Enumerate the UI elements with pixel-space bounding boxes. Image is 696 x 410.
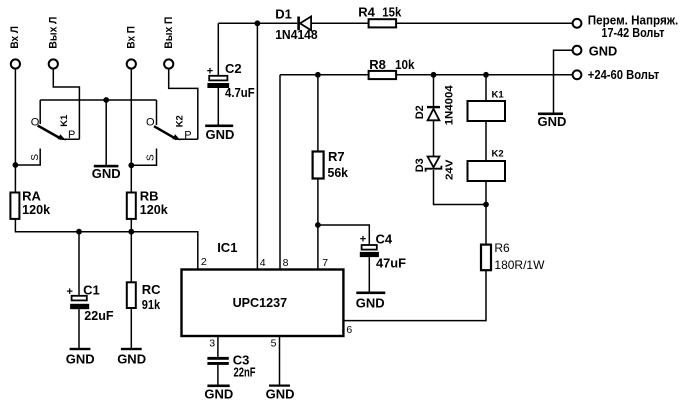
svg-text:K2: K2 [175,115,186,127]
wire O1 lead [39,100,41,124]
svg-text:C1: C1 [83,282,100,297]
svg-text:6: 6 [346,324,352,336]
svg-text:Вых Л: Вых Л [48,17,60,49]
GND symbols: bar + label [66,113,567,402]
arrowhead arm K2 [172,134,180,140]
wire R4 to connector [396,22,572,24]
svg-text:GND: GND [66,351,95,366]
node bus C1 [76,229,82,235]
wire GND connector drop [554,50,573,112]
resistor RB [127,193,136,219]
resistor R8 [369,71,397,79]
ground under pin5 [269,385,290,387]
svg-text:+24-60 Вольт: +24-60 Вольт [588,67,660,82]
svg-text:22uF: 22uF [84,308,113,323]
ground center contacts [94,165,119,168]
resistor RC [127,282,136,308]
wire RB to bus [130,219,132,232]
arrowhead arm K1 [58,134,67,140]
svg-text:S: S [146,154,157,161]
svg-text:1N4148: 1N4148 [275,27,318,42]
zener D3 24V [428,157,440,168]
node contact bus GND [103,97,109,103]
wire O2 lead [156,100,158,125]
relay contact labels [30,114,191,161]
connector P2 GND circle [573,46,582,55]
terminal T4 Вых П [164,59,173,68]
terminal T3 Вх П [127,59,136,68]
svg-text:15k: 15k [382,4,402,19]
svg-text:4: 4 [260,257,266,269]
ground under C3 [207,385,229,388]
node rail K1 [483,72,489,78]
svg-text:1N4004: 1N4004 [443,84,455,125]
wire D2 branch top [433,75,435,107]
capacitor C4 plates [362,245,377,250]
wire R6 to pin 6 [343,270,486,320]
wire T1 vertical [14,69,16,193]
wire T2 step to relay pole P (K1) [53,69,79,140]
svg-text:GND: GND [589,43,618,58]
resistor R7 [313,152,324,179]
svg-text:120k: 120k [140,202,169,217]
svg-text:GND: GND [204,387,233,402]
resistor R4 [369,19,397,27]
svg-text:2: 2 [201,256,207,268]
node S1 [13,162,19,168]
svg-text:K1: K1 [492,89,505,100]
diode D2 1N4004 [427,106,440,108]
svg-text:D2: D2 [414,105,426,119]
svg-text:C2: C2 [225,61,242,76]
wire D1-R4 [311,22,369,24]
wire contact bus O1-GND-O2 [40,99,156,101]
svg-text:Вх Л: Вх Л [9,26,21,49]
node D1 pin4 [255,20,261,26]
terminal T2 Вых Л [49,59,58,68]
node S2 [128,162,134,168]
wire +V rail pin8-R8 [280,74,369,76]
wire C2 to GND [217,88,219,125]
svg-text:O: O [31,116,40,128]
capacitor C2 plates [209,76,227,81]
wire C4 branch [318,225,369,245]
wire RA to bus [15,219,197,270]
svg-text:7: 7 [322,257,328,269]
wire center GND drop [105,100,107,165]
svg-text:24V: 24V [443,160,455,181]
wire coil branch top [485,75,487,101]
wire C1 to GND [78,309,80,348]
svg-text:P: P [184,129,191,141]
resistor R6 [481,245,491,271]
node rail D2 [431,72,437,78]
pin number labels [201,256,353,350]
svg-text:3: 3 [209,337,215,349]
svg-text:D1: D1 [275,7,292,22]
relay arm K2 [154,126,177,139]
wire pin 8 vertical [279,75,281,270]
ground under C1 [70,348,91,350]
ground right connector [538,113,563,116]
svg-text:Вых П: Вых П [163,17,175,49]
wire D3 bottom to node [434,170,487,205]
svg-text:GND: GND [117,351,146,366]
ground under C4 [356,292,385,295]
wire RC to GND [130,308,132,348]
svg-text:S: S [30,154,41,161]
svg-text:K1: K1 [59,114,70,127]
svg-text:R8: R8 [369,57,386,72]
wire K1-K2 coil [485,121,487,161]
svg-text:GND: GND [206,127,235,142]
svg-text:R7: R7 [328,149,345,164]
svg-text:Вх П: Вх П [126,26,138,49]
node D3 R6 [483,202,489,208]
connector P3 +24-60 circle [573,70,582,79]
svg-text:GND: GND [538,114,567,129]
svg-text:D3: D3 [414,158,426,172]
svg-text:4.7uF: 4.7uF [225,85,255,100]
svg-text:R4: R4 [358,4,375,19]
svg-text:RC: RC [142,282,161,297]
resistor RA [10,193,19,219]
wire S2 lead to node [131,149,156,166]
wire T3 vertical [130,69,132,193]
wire pin 5 drop [279,336,281,385]
wire RC drop [130,232,132,283]
wire C4 to GND [368,257,370,291]
svg-text:22nF: 22nF [234,365,256,380]
wire pin 3 drop [217,336,219,357]
svg-text:5: 5 [271,337,277,349]
wire P2 bottom [177,138,198,140]
capacitor C3 plates [207,357,228,360]
relay coil K2 [468,161,506,181]
svg-text:10k: 10k [395,57,415,72]
connector P1 Перем circle [573,19,582,28]
ground under C2 [205,125,233,128]
diode D1 [297,17,300,31]
relay coil K1 [468,101,506,121]
svg-text:IC1: IC1 [217,240,237,255]
svg-text:P: P [68,129,75,141]
svg-text:120k: 120k [22,202,51,217]
wire D2-D3 [433,120,435,156]
node rail R7 [315,72,321,78]
svg-text:+: + [67,286,73,298]
svg-text:8: 8 [283,257,289,269]
wire pin 7 vertical upper [317,75,319,152]
svg-text:91k: 91k [142,297,161,312]
wire top rail C2-D1 [218,22,297,24]
rotated terminal labels [9,17,175,49]
wire node to R6 [485,205,487,245]
terminal T1 Вх Л [11,59,20,68]
wire K2 to node [485,181,487,205]
svg-text:180R/1W: 180R/1W [494,258,545,272]
wire C1 drop [78,232,80,296]
svg-text:O: O [146,116,155,128]
wire S1 lead to node [15,149,40,166]
wire P1 bottom [62,138,79,140]
svg-text:R6: R6 [494,241,510,255]
ground under RC [121,348,142,350]
svg-text:K2: K2 [492,149,504,160]
svg-text:GND: GND [92,166,121,181]
wire pin 4 vertical [256,23,258,269]
svg-text:+: + [207,66,213,78]
svg-text:47uF: 47uF [376,256,406,271]
wire C2 drop [217,23,219,76]
label R6 (regular weight) [494,241,545,272]
node R7 C4 [315,222,321,228]
svg-text:UPC1237: UPC1237 [233,295,288,310]
IC U1 UPC1237 box [182,270,344,337]
relay arm K1 [38,126,62,140]
svg-text:+: + [360,234,366,246]
capacitor C1 plates [72,296,87,301]
svg-text:GND: GND [266,387,295,402]
svg-text:C4: C4 [376,231,393,246]
node bus RB [128,229,134,235]
wire pin 7 vertical lower [317,179,319,270]
wire R8 to connector [396,74,572,76]
svg-text:17-42 Вольт: 17-42 Вольт [601,25,664,40]
wire C3 to GND [217,365,219,385]
wire T4 step to relay pole P (K2) [169,69,198,140]
svg-text:56k: 56k [328,165,349,180]
svg-text:GND: GND [356,295,385,310]
